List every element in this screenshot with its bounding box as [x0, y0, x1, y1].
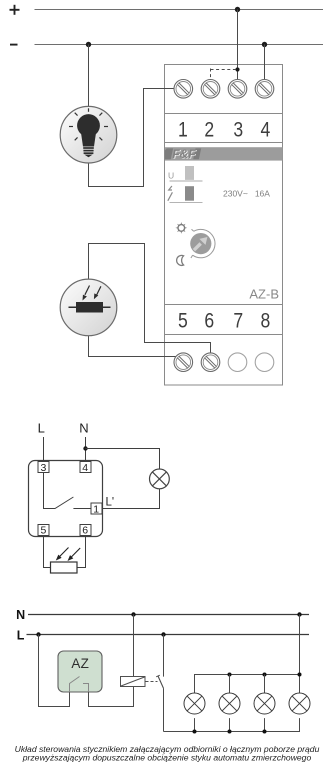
lamp 1 — [184, 693, 205, 714]
terminal square 1 — [91, 503, 102, 514]
svg-text:8: 8 — [261, 310, 271, 333]
svg-text:5: 5 — [40, 525, 46, 537]
moon icon — [177, 255, 184, 265]
svg-text:6: 6 — [82, 525, 88, 537]
LED load indicator (lightning) — [169, 186, 172, 190]
contactor coil — [121, 677, 146, 687]
svg-text:N: N — [16, 608, 25, 622]
screw terminal 2 — [201, 80, 220, 99]
svg-text:L: L — [38, 420, 45, 435]
wire: L down to terminal 3 — [43, 437, 45, 462]
dashed mechanical link — [146, 681, 158, 683]
terminal square 3 — [38, 462, 49, 473]
wire: L rail — [27, 634, 310, 636]
svg-text:1: 1 — [178, 118, 188, 141]
lamp 4 — [289, 693, 310, 714]
node: dashed junction — [235, 67, 239, 71]
wire: minus rail to terminal 4 — [264, 45, 266, 80]
svg-text:4: 4 — [82, 462, 88, 474]
terminal square 5 — [38, 525, 49, 536]
knob outer arc — [193, 229, 215, 257]
svg-text:U: U — [168, 171, 174, 181]
svg-text:3: 3 — [40, 462, 46, 474]
svg-text:N: N — [79, 420, 88, 435]
node: N to coil — [131, 612, 135, 616]
wire: photo sensor to terminal 5 — [89, 336, 177, 357]
terminal hole 8 — [255, 353, 274, 372]
svg-text:F&F: F&F — [172, 147, 196, 161]
top bus junction dots — [228, 673, 232, 677]
light arrows — [59, 548, 69, 558]
node: L to contact — [161, 632, 165, 636]
photoresistor — [51, 562, 78, 573]
lamp symbol (circle with cross) — [150, 469, 170, 489]
wire: N down to terminal 4 — [85, 437, 87, 462]
wire: AZ output to coil — [89, 686, 134, 706]
photo sensor symbol (circle with photoresistor) — [60, 279, 117, 336]
wire: dashed link to terminal 2 — [211, 69, 238, 80]
svg-text:5: 5 — [178, 310, 188, 333]
node: N to lamps — [297, 612, 301, 616]
screw terminal 3 — [228, 80, 247, 99]
node: L to AZ — [36, 632, 40, 636]
wire: terminal 5 to photoresistor — [44, 536, 51, 568]
terminal labels 5 6 7 8 — [178, 310, 270, 333]
wire: photo sensor to terminal 6 — [89, 244, 211, 354]
wire: L to AZ input — [39, 635, 70, 707]
wire: lamps bottom bus — [164, 718, 300, 731]
svg-text:AZ-B: AZ-B — [249, 287, 279, 302]
screw terminal 5 — [174, 353, 193, 372]
svg-text:przewyższającym dopuszczalne o: przewyższającym dopuszczalne obciążenie … — [22, 752, 312, 762]
screw terminal 6 — [201, 353, 220, 372]
lamp 3 — [254, 693, 275, 714]
internal switch contact — [44, 473, 74, 509]
wire: N rail — [28, 614, 309, 616]
svg-text:230V~16A: 230V~16A — [223, 189, 270, 199]
contactor contact — [163, 635, 165, 677]
minus sign label — [10, 44, 18, 46]
plus sign label — [10, 5, 20, 15]
wire: lamp to terminal 1 — [89, 89, 175, 187]
wire: terminal 6 to photoresistor — [77, 536, 86, 568]
AZ device box — [58, 651, 102, 692]
wire: lamp to terminal 1 (L') — [103, 489, 160, 509]
AZ internal contact — [70, 677, 89, 693]
wire: minus rail to lamp — [88, 45, 90, 107]
knob — [190, 233, 211, 254]
terminal square 4 — [80, 462, 91, 473]
node: junction on plus rail — [235, 7, 240, 12]
svg-text:AZ: AZ — [71, 656, 89, 671]
svg-text:L: L — [17, 629, 25, 643]
wire: lamps top bus — [195, 675, 300, 694]
wire: plus rail to terminal 3 — [237, 10, 239, 80]
lamp bottom drops — [194, 718, 196, 731]
wire: N branch to lamp — [86, 449, 160, 470]
module separator lines — [165, 114, 283, 335]
wire: N down to lamps bus — [299, 615, 301, 694]
svg-text:4: 4 — [261, 118, 271, 141]
bottom bus junction dots — [193, 730, 197, 734]
terminal square 6 — [80, 525, 91, 536]
lamp symbol (circle with bulb) — [60, 106, 117, 163]
F&F logo bar — [165, 147, 283, 162]
svg-text:L': L' — [106, 497, 115, 509]
screw terminal 4 — [255, 80, 274, 99]
wire: plus rail — [35, 9, 324, 11]
svg-text:1: 1 — [93, 504, 99, 516]
sun icon — [175, 222, 187, 234]
node: junction on minus rail above terminal 4 — [262, 42, 267, 47]
node: junction on minus rail above lamp — [86, 42, 91, 47]
terminal labels 1 2 3 4 — [178, 118, 271, 141]
svg-text:2: 2 — [204, 118, 214, 141]
lamp drops — [229, 675, 231, 694]
svg-text:7: 7 — [233, 310, 243, 333]
svg-text:3: 3 — [233, 118, 243, 141]
module body — [165, 65, 283, 386]
device box — [29, 461, 103, 537]
terminal hole 7 — [228, 353, 247, 372]
wire: minus rail — [35, 44, 324, 46]
svg-text:6: 6 — [204, 310, 214, 333]
lamp 2 — [219, 693, 240, 714]
screw terminal 1 — [174, 80, 193, 99]
wire: N to coil — [133, 615, 135, 677]
node: N junction — [83, 446, 87, 450]
